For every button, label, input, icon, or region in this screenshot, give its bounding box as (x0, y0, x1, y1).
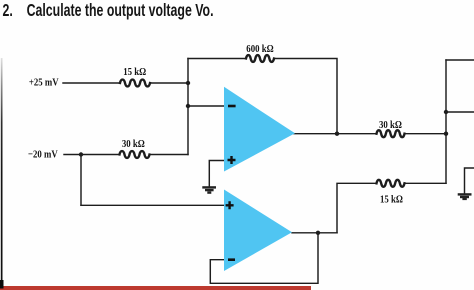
resistor R3 30k zigzag (377, 130, 405, 137)
title text (2, 1, 213, 21)
wire R4 to U2 output branch (337, 183, 377, 233)
wire to noninverting input U2 (81, 204, 224, 206)
scan artifact bottom left blob (0, 280, 4, 289)
op-amp U2 (224, 190, 292, 272)
wire mid right offscreen (446, 111, 474, 113)
wire right bus vertical (445, 60, 447, 183)
wire RF to output node (275, 59, 338, 134)
U1 minus sign (228, 105, 236, 108)
junction dot right bus mid (444, 110, 448, 114)
wire input1 to R1 (63, 82, 120, 84)
resistor R2 30k zigzag (120, 151, 150, 158)
wire U1 output (294, 133, 377, 135)
junction dot U2 output (316, 231, 320, 235)
wire top right offscreen (446, 59, 474, 61)
junction dot right bus at R3 (444, 132, 448, 136)
wire U2 output (292, 232, 337, 234)
junction dot at summing bus and R1 (186, 81, 190, 85)
junction dot at summing bus and inverting input (186, 104, 190, 108)
wire top feedback run (188, 58, 246, 60)
wire ground2 stub (465, 168, 474, 193)
svg-text:+25 mV: +25 mV (29, 77, 59, 89)
wire node A branch down (80, 155, 82, 206)
wire R1 to summing node (150, 82, 188, 84)
wire input2 to R2 (64, 154, 120, 156)
svg-text:600 kΩ: 600 kΩ (246, 43, 273, 55)
wire R2 to summing bus (150, 154, 189, 156)
U1 plus sign (228, 156, 236, 164)
svg-text:2.: 2. (2, 1, 12, 21)
junction dot at U1 output and RF (335, 132, 339, 136)
wire noninverting input U1 to ground (209, 161, 224, 187)
U2 plus sign (226, 201, 234, 209)
wire inverting input U1 (188, 105, 224, 107)
resistor R4 15k zigzag (377, 180, 405, 187)
resistor RF 600k zigzag (246, 55, 274, 62)
wire summing bus vertical (187, 59, 189, 155)
svg-text:Calculate the output voltage V: Calculate the output voltage Vo. (27, 1, 214, 21)
wire U2 feedback loop (210, 233, 318, 283)
junction dot at node A (79, 152, 83, 156)
ground symbol G1 (202, 187, 216, 192)
wire 15k run bottom (405, 182, 447, 184)
op-amp U1 (224, 87, 295, 172)
ground symbol G2 (458, 194, 472, 199)
U2 minus sign (228, 258, 235, 261)
wire R3 to right bus (405, 133, 447, 135)
svg-text:15 kΩ: 15 kΩ (380, 194, 403, 206)
resistor R1 15k zigzag (120, 80, 150, 87)
red scan bar bottom (0, 286, 311, 290)
svg-text:15 kΩ: 15 kΩ (123, 66, 146, 78)
svg-text:−20 mV: −20 mV (28, 149, 58, 161)
svg-text:30 kΩ: 30 kΩ (122, 138, 145, 150)
